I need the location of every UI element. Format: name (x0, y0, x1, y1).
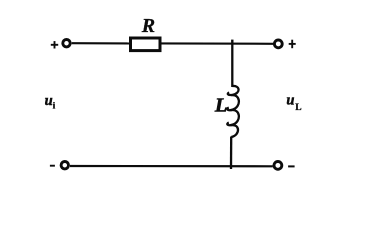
minus sign (output, bottom-right) (288, 165, 295, 167)
terminal circle bottom-left (61, 162, 68, 169)
terminal circle bottom-right (274, 162, 282, 170)
wire: top-left terminal to resistor R (72, 42, 129, 44)
wire: inductor down to bottom rail (230, 137, 232, 170)
wire: bottom rail (70, 165, 273, 168)
svg-text:L: L (214, 94, 228, 116)
inductor L (coil, 4 loops) (227, 86, 239, 137)
wire: resistor to top-right terminal (162, 42, 274, 44)
terminal circle top-right (274, 40, 282, 48)
svg-text:i: i (53, 102, 56, 112)
plus sign (output, top-right) (289, 40, 296, 49)
svg-text:R: R (141, 15, 155, 37)
svg-text:L: L (295, 103, 301, 113)
wire: junction down to inductor L (231, 43, 233, 87)
terminal circle top-left (63, 40, 70, 47)
resistor R (box) (131, 38, 161, 51)
svg-text:u: u (45, 93, 53, 109)
minus sign (input, bottom-left) (50, 165, 55, 167)
junction node (tick at top of inductor branch) (231, 40, 233, 45)
svg-text:u: u (286, 93, 294, 109)
plus sign (input, top-left) (51, 41, 58, 48)
